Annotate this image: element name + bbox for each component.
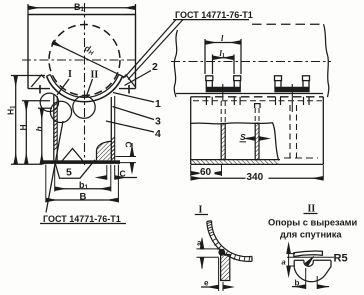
svg-text:H1: H1 bbox=[6, 105, 17, 115]
rib 2 hidden dashes above with cap bbox=[255, 108, 259, 123]
svg-text:h: h bbox=[34, 126, 44, 131]
right wall hatching bbox=[111, 137, 114, 160]
svg-text:B1: B1 bbox=[74, 2, 85, 13]
right corner flag bbox=[123, 75, 135, 87]
dimension S bbox=[246, 138, 267, 140]
vertical centerline bbox=[84, 3, 86, 165]
svg-text:2: 2 bbox=[152, 61, 158, 73]
svg-text:60: 60 bbox=[200, 167, 212, 178]
svg-text:B: B bbox=[80, 192, 87, 203]
dimension l1 bbox=[213, 55, 235, 75]
support left wall bbox=[54, 95, 57, 160]
svg-text:b1: b1 bbox=[79, 180, 89, 191]
detail circle C bbox=[73, 96, 95, 118]
dimension B bbox=[46, 165, 119, 203]
base plate left view (dark bar) bbox=[42, 160, 120, 164]
weld dot bbox=[218, 249, 225, 256]
channel leg stubs left bbox=[206, 97, 309, 105]
wall top edges bbox=[294, 259, 304, 261]
R5 reference line bbox=[287, 256, 334, 258]
svg-text:a: a bbox=[197, 239, 202, 248]
leader detail II bbox=[87, 79, 93, 96]
plate rectangle (front plate of support) bbox=[28, 15, 136, 89]
right wall edge bbox=[326, 260, 331, 273]
hidden base line right bbox=[284, 157, 318, 159]
saddle section curved band bbox=[207, 222, 252, 262]
dimension 60 bbox=[191, 164, 222, 176]
horizontal centerline bbox=[22, 59, 141, 61]
dimension 340 bbox=[191, 165, 324, 180]
support right wall bbox=[111, 96, 114, 160]
svg-text:I: I bbox=[68, 69, 72, 80]
plan left break wavy bbox=[174, 30, 177, 97]
dimension b bbox=[292, 268, 329, 289]
svg-text:3: 3 bbox=[155, 116, 161, 128]
wavy section line bbox=[191, 123, 279, 160]
rib 2 hatched bbox=[255, 123, 259, 159]
small c horizontal dimension right side bbox=[99, 165, 137, 180]
svg-text:II: II bbox=[308, 204, 316, 215]
dimension e bbox=[201, 258, 231, 291]
detail circle B bbox=[50, 101, 71, 122]
top curved strip bbox=[294, 251, 323, 257]
svg-text:II: II bbox=[91, 70, 99, 81]
svg-text:I: I bbox=[199, 205, 203, 216]
rib 1 hatched bbox=[221, 124, 225, 160]
detail circle A bbox=[40, 93, 58, 111]
svg-text:ГОСТ 14771-76-Т1: ГОСТ 14771-76-Т1 bbox=[175, 10, 253, 20]
svg-text:5: 5 bbox=[66, 167, 72, 179]
right tick bbox=[128, 85, 130, 94]
saddle band outer arc bbox=[47, 76, 123, 102]
gusset with curved edge bbox=[97, 141, 112, 160]
notch bbox=[304, 260, 313, 266]
leader lines to top GOST label bbox=[125, 20, 177, 78]
svg-text:340: 340 bbox=[247, 172, 264, 183]
hidden walls dashed right bbox=[290, 105, 297, 158]
dimension b1 bbox=[55, 165, 111, 192]
plan back edge dashed bbox=[252, 23, 322, 25]
dimension l bbox=[205, 39, 241, 74]
svg-text:для спутника: для спутника bbox=[280, 230, 342, 240]
gusset hatch bbox=[97, 141, 112, 160]
svg-text:l: l bbox=[221, 33, 224, 43]
hidden edge dashed under top bbox=[193, 100, 322, 102]
svg-text:ГОСТ 14771-76-Т1: ГОСТ 14771-76-Т1 bbox=[43, 214, 121, 224]
left tick bbox=[39, 85, 41, 94]
left small dimension bbox=[287, 247, 295, 272]
svg-text:1: 1 bbox=[155, 98, 161, 110]
wall section rect bbox=[221, 255, 230, 281]
big bowl arc bbox=[294, 267, 326, 281]
svg-text:H: H bbox=[18, 124, 28, 130]
dimension h bbox=[38, 108, 52, 164]
label d_n bbox=[83, 43, 97, 58]
dimension H bbox=[22, 101, 50, 165]
svg-text:Опоры с вырезами: Опоры с вырезами bbox=[268, 218, 358, 228]
left channel bbox=[206, 76, 241, 92]
d_n diameter arrow bbox=[53, 42, 125, 77]
pipe circle dashed bbox=[49, 25, 120, 96]
base hatched bbox=[191, 160, 279, 165]
svg-text:C: C bbox=[124, 142, 134, 148]
left channel centerline bbox=[222, 84, 224, 100]
dimension H1 bbox=[11, 76, 45, 165]
saddle band inner arc bbox=[50, 75, 118, 98]
plan front edge bbox=[176, 93, 323, 95]
saddle end caps bbox=[47, 75, 51, 77]
svg-text:a: a bbox=[282, 258, 286, 267]
left wall edge bbox=[293, 260, 295, 267]
rib 2 top cap bbox=[255, 104, 260, 108]
small c vertical dimension right side bbox=[116, 143, 137, 172]
svg-text:C: C bbox=[120, 169, 126, 179]
plan centerline bbox=[171, 61, 331, 63]
right channel centerline bbox=[291, 84, 293, 112]
R5 arrow into notch bbox=[307, 257, 313, 264]
GOST bottom leader bbox=[46, 121, 63, 213]
dimension B1 top bbox=[28, 4, 136, 15]
plan right break wavy bbox=[324, 24, 329, 97]
svg-text:S: S bbox=[240, 132, 246, 142]
svg-text:l1: l1 bbox=[220, 48, 225, 59]
svg-text:R5: R5 bbox=[334, 253, 348, 265]
right channel bbox=[275, 76, 310, 92]
left wall hatching bbox=[54, 103, 57, 150]
svg-text:e: e bbox=[204, 279, 209, 288]
leader detail I bbox=[57, 79, 69, 95]
weld lambda mark bbox=[62, 149, 83, 162]
svg-text:b: b bbox=[295, 279, 300, 288]
svg-text:4: 4 bbox=[155, 128, 161, 140]
front view outline bbox=[191, 97, 324, 165]
left corner flag bbox=[31, 75, 44, 87]
rib 1 hidden dashes above bbox=[221, 101, 225, 124]
base top line bbox=[191, 159, 280, 161]
band hatch ticks bbox=[207, 222, 250, 261]
dimension a bbox=[197, 239, 221, 269]
